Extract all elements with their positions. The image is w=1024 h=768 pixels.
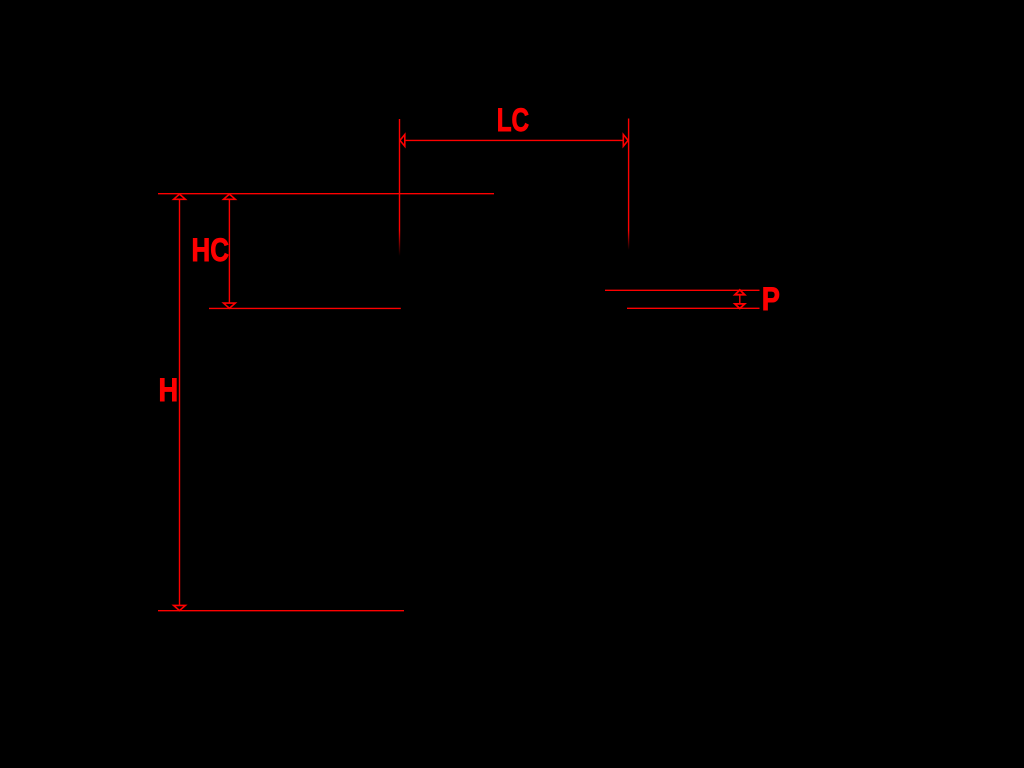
svg-text:H: H (159, 373, 179, 409)
node LC right arrow (623, 135, 628, 147)
node HC bottom arrow (224, 303, 236, 308)
node H top arrow (174, 194, 186, 199)
wire LC left extension line (399, 119, 401, 256)
node P top arrow (735, 290, 745, 295)
wire H dimension line (179, 199, 181, 606)
svg-text:HC: HC (192, 234, 229, 269)
node HC top arrow (224, 194, 236, 199)
wire bottom reference line (158, 610, 404, 612)
wire LC dimension line (405, 139, 624, 141)
svg-text:P: P (762, 282, 780, 318)
wire HC bottom reference line (209, 307, 401, 309)
wire P dimension line (739, 294, 741, 304)
wire top reference line (158, 193, 494, 195)
wire P top reference line (605, 289, 760, 291)
node P bottom arrow (735, 304, 745, 309)
svg-text:LC: LC (497, 103, 529, 139)
node LC left arrow (400, 135, 405, 147)
wire P bottom reference line (627, 307, 760, 309)
wire HC dimension line (228, 199, 230, 304)
node H bottom arrow (174, 605, 186, 610)
wire LC right extension line (628, 119, 630, 251)
